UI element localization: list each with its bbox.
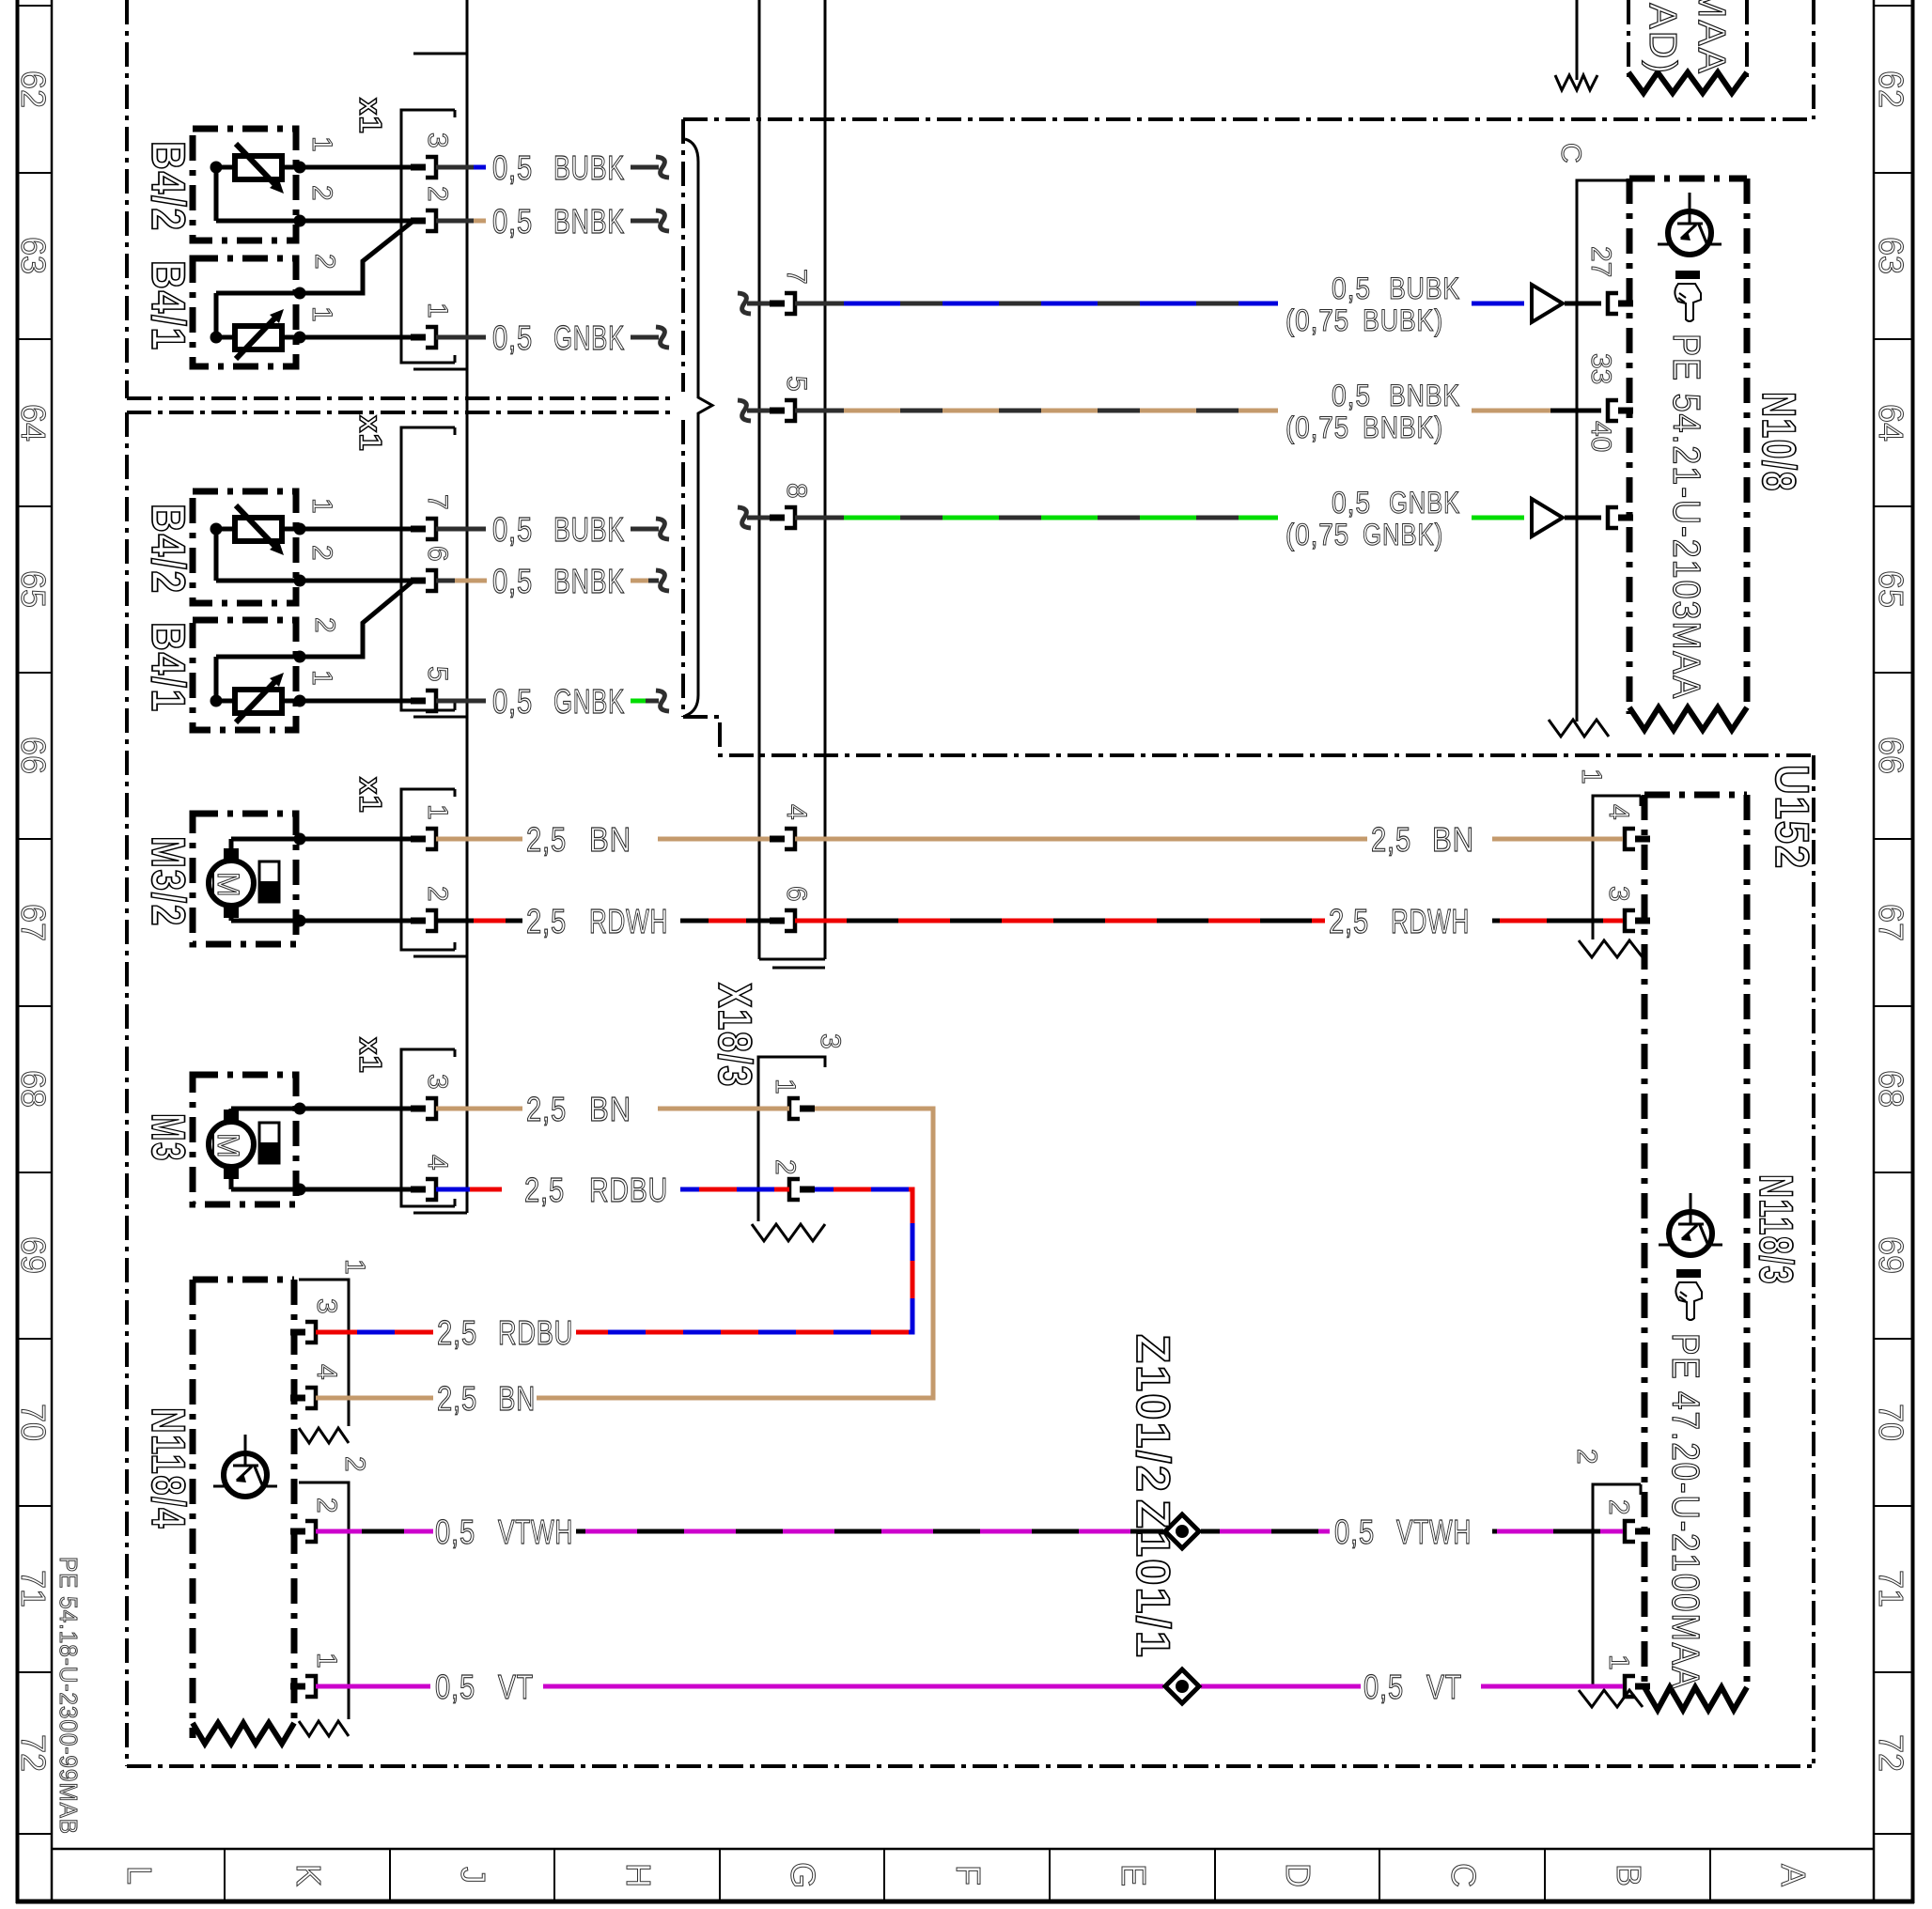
pin 3 x1 g1: [411, 164, 426, 171]
svg-text:4: 4: [311, 1364, 342, 1380]
wire 0,5 VT row: [316, 1684, 430, 1689]
svg-text:(0,75: (0,75: [1285, 518, 1349, 551]
svg-text:(0,75: (0,75: [1285, 303, 1349, 337]
wire 0,5 BNBK to N10/8 pin 33: [795, 409, 825, 413]
U152 connector bracket 1 tear: [1579, 940, 1643, 957]
motor M3 symbol: [209, 1122, 254, 1167]
component box B4/1 (group 2): [193, 620, 296, 730]
svg-text:B4/1: B4/1: [142, 622, 195, 713]
svg-text:66: 66: [14, 737, 53, 774]
svg-text:2,5: 2,5: [437, 1379, 477, 1418]
X18/3 upper rail left: [758, 0, 761, 959]
svg-text:3: 3: [422, 132, 453, 148]
x1 connector bottom comb (M3): [413, 1212, 467, 1215]
svg-text:4: 4: [781, 804, 812, 820]
pin 1 x1 M3/2: [411, 836, 426, 843]
svg-text:RDBU: RDBU: [589, 1171, 668, 1209]
node M3-1: [294, 1103, 306, 1115]
connector bracket 1 N118/4 tear: [299, 1428, 349, 1443]
svg-text:MAD): MAD): [1642, 0, 1685, 75]
svg-text:65: 65: [14, 570, 53, 608]
svg-text:69: 69: [1872, 1236, 1910, 1274]
node B4/2-2 g2: [294, 575, 306, 587]
node B4/2-1 g1: [210, 162, 223, 174]
connector bracket 2 N118/4 tear: [299, 1721, 349, 1736]
svg-text:67: 67: [1872, 904, 1910, 941]
wire M3-2 to pin 4: [231, 1187, 412, 1192]
svg-text:2: 2: [309, 617, 340, 633]
svg-text:2: 2: [770, 1159, 801, 1175]
svg-text:0,5: 0,5: [1332, 486, 1371, 520]
svg-text:2,5: 2,5: [526, 820, 567, 859]
svg-text:M: M: [211, 1133, 245, 1159]
svg-text:64: 64: [1872, 404, 1910, 442]
svg-text:BNBK: BNBK: [553, 202, 625, 241]
svg-text:0,5: 0,5: [492, 318, 533, 357]
wire B4/1-1 g1 to pin 1: [300, 335, 412, 340]
X18/3 upper bottom comb: [759, 958, 825, 961]
arrow GNBK: [1532, 499, 1563, 536]
wire B4/1-2 g1 diagonal to pin 2: [300, 221, 413, 293]
svg-text:(0,75: (0,75: [1285, 411, 1349, 444]
cut component box right edge: [1745, 0, 1749, 77]
svg-text:0,5: 0,5: [435, 1513, 475, 1551]
svg-text:2,5: 2,5: [437, 1313, 477, 1352]
x1 connector bracket (B4 group 2): [401, 427, 455, 710]
wire M3-1 to pin 3: [231, 1107, 412, 1111]
svg-text:BUBK: BUBK: [553, 148, 625, 187]
cut component connector strip top left (to x1 rail): [413, 53, 467, 55]
svg-text:D: D: [1279, 1863, 1317, 1887]
U152 connector bracket 1: [1593, 796, 1641, 939]
splice Z101/2: [1165, 1514, 1199, 1548]
N10/8 connector strip: [1577, 180, 1627, 722]
node M3/2-2: [294, 915, 306, 927]
node B4/1-1 g2: [210, 695, 223, 707]
svg-text:BUBK: BUBK: [553, 510, 625, 549]
node B4/1-2 g2: [294, 651, 306, 663]
wire stub 0,5 BUBK g2: [436, 527, 486, 532]
transistor icon N10/8: [1668, 211, 1711, 255]
svg-text:GNBK: GNBK: [553, 318, 625, 357]
wire B4/2-1 g2 to pin 7: [300, 527, 412, 532]
svg-text:3: 3: [311, 1298, 342, 1314]
thermistor B4/1 group1: [235, 326, 282, 349]
svg-text:2,5: 2,5: [1371, 820, 1411, 859]
assembly box 2 top edge: [127, 411, 673, 414]
wire stub 0,5 BNBK g2: [436, 579, 455, 583]
svg-text:PE 54.21-U-2103MAA: PE 54.21-U-2103MAA: [1665, 334, 1708, 700]
svg-text:N118/4: N118/4: [142, 1407, 195, 1529]
pin 5 x1 g2: [411, 698, 426, 705]
svg-text:69: 69: [14, 1236, 53, 1274]
wire end hook BUBK g1: [656, 157, 669, 178]
svg-text:VT: VT: [498, 1668, 534, 1706]
bundle pin 8 hook: [738, 507, 751, 528]
x1 connector bottom comb (group 2): [413, 716, 467, 719]
thermistor arrow B4/2 group2: [236, 505, 279, 551]
pin 27 N10/8: [1608, 293, 1618, 314]
svg-text:RDWH: RDWH: [589, 902, 668, 940]
svg-text:E: E: [1114, 1864, 1153, 1886]
wire B4/1-1 g2 to pin 5: [300, 699, 412, 704]
pin 4 N118/4: [290, 1395, 305, 1402]
pin 2 x1 M3/2: [411, 918, 426, 924]
pin 1 N118/4: [290, 1684, 305, 1690]
assembly box 1 bottom edge: [127, 396, 673, 400]
N10/8 connector strip tear: [1549, 720, 1609, 737]
wire stub 0,5 GNBK g2: [436, 699, 486, 704]
wire 2,5 RDWH M3/2 row: [436, 919, 522, 923]
component box M3: [193, 1075, 296, 1204]
svg-text:3: 3: [1603, 886, 1634, 902]
svg-text:PE 54.18-U-2300-99MAB: PE 54.18-U-2300-99MAB: [55, 1557, 83, 1835]
left ruler column inner line: [51, 0, 54, 1901]
wire 0,5 VTWH row: [316, 1529, 362, 1534]
svg-text:0,5: 0,5: [492, 682, 533, 721]
component box N10/8: [1627, 178, 1633, 714]
svg-text:N118/3: N118/3: [1750, 1174, 1802, 1285]
assembly box 1 left edge (B4 sensor group 1): [125, 0, 129, 398]
thermistor B4/2 group2: [235, 518, 282, 541]
svg-text:M: M: [211, 872, 245, 898]
svg-text:B: B: [1610, 1864, 1648, 1886]
right ruler separators: [1874, 5, 1912, 7]
pin 1 x1 g1: [411, 334, 426, 341]
assembly bottom edge: [127, 1764, 1814, 1768]
X18/3 lower bracket: [758, 1057, 825, 1221]
hand icon N10/8: [1675, 271, 1700, 279]
cut component box left edge: [1627, 0, 1630, 77]
svg-text:5: 5: [781, 376, 812, 392]
svg-text:0,5: 0,5: [435, 1668, 475, 1706]
svg-text:2: 2: [339, 1456, 370, 1472]
page border bottom outer line: [16, 1900, 1914, 1904]
svg-text:N10/8: N10/8: [1753, 392, 1805, 492]
thermistor arrow B4/1 group1: [236, 314, 279, 359]
svg-text:1: 1: [306, 306, 337, 322]
svg-text:C: C: [1444, 1863, 1483, 1887]
svg-text:4: 4: [1603, 804, 1634, 820]
svg-text:7: 7: [781, 269, 812, 285]
svg-text:GNBK): GNBK): [1363, 518, 1443, 551]
svg-text:1: 1: [1603, 1654, 1634, 1670]
svg-text:B4/2: B4/2: [142, 141, 195, 232]
component box N118/3: [1642, 795, 1648, 1691]
wire stub 0,5 BUBK g1: [436, 165, 474, 170]
svg-text:x1: x1: [353, 415, 388, 452]
x1 connector rail: [466, 0, 469, 1213]
assembly box 2 left edge: [125, 412, 129, 1766]
pin 4 X18/3: [770, 836, 785, 843]
wire M3/2-1 to pin 1: [231, 837, 412, 842]
svg-text:4: 4: [422, 1155, 453, 1171]
svg-text:0,5: 0,5: [1363, 1668, 1404, 1706]
cut component box tear line: [1628, 72, 1747, 93]
svg-text:A: A: [1774, 1864, 1813, 1886]
svg-text:72: 72: [14, 1734, 53, 1772]
svg-text:BNBK): BNBK): [1363, 411, 1443, 444]
wire B4/2-1 g1 to pin 3: [300, 165, 412, 170]
svg-text:K: K: [289, 1864, 328, 1886]
svg-text:BNBK: BNBK: [1389, 379, 1460, 412]
svg-text:H: H: [619, 1863, 658, 1887]
svg-text:G: G: [784, 1862, 822, 1888]
svg-text:70: 70: [14, 1404, 53, 1441]
svg-text:40: 40: [1585, 421, 1616, 452]
pin 33 N10/8: [1608, 400, 1618, 421]
svg-text:2,5: 2,5: [524, 1171, 565, 1209]
svg-text:0,5: 0,5: [492, 148, 533, 187]
pin 7 x1 g2: [411, 526, 426, 533]
wire 0,5 BUBK to N10/8 pin 27: [795, 302, 825, 306]
svg-text:BN: BN: [589, 1090, 631, 1128]
wire end hook BNBK g2: [656, 570, 669, 591]
svg-text:M3/2: M3/2: [142, 836, 195, 927]
svg-text:2: 2: [422, 886, 453, 902]
svg-text:C: C: [1555, 143, 1586, 163]
motor M3/2 symbol: [209, 861, 254, 906]
component box N118/3 tear line: [1644, 1687, 1747, 1710]
svg-text:BN: BN: [589, 820, 631, 859]
svg-text:BUBK: BUBK: [1389, 272, 1460, 305]
page border right outer line: [1911, 0, 1915, 1903]
x1 connector bottom comb (group 1): [413, 368, 467, 371]
svg-text:X18/3: X18/3: [709, 983, 761, 1088]
svg-text:2: 2: [422, 186, 453, 202]
svg-text:2: 2: [1571, 1449, 1602, 1465]
svg-text:71: 71: [1872, 1570, 1910, 1607]
svg-text:Z101/1: Z101/1: [1127, 1499, 1179, 1659]
svg-text:0,5: 0,5: [492, 562, 533, 600]
component box B4/1 (group 1): [193, 258, 296, 366]
svg-text:1: 1: [306, 498, 337, 514]
bottom letter-row top line: [52, 1848, 1875, 1851]
cut component connector tear: [1555, 75, 1597, 90]
bundle pin 7: [770, 301, 785, 307]
left ruler separators: [18, 5, 53, 7]
svg-text:M3: M3: [142, 1113, 195, 1162]
pin 2 X18/3 lower: [789, 1179, 800, 1200]
wire-bundle box bottom edge step: [683, 717, 1814, 755]
svg-text:33: 33: [1585, 353, 1616, 384]
svg-text:67: 67: [14, 904, 53, 941]
svg-text:J: J: [454, 1867, 492, 1884]
svg-text:x1: x1: [353, 1037, 388, 1074]
wire 2,5 RDBU M3 row to X18/3 pin 2: [436, 1187, 470, 1192]
wire stub 0,5 GNBK g1: [436, 335, 486, 340]
svg-text:GNBK: GNBK: [1389, 486, 1460, 520]
svg-text:7: 7: [422, 494, 453, 510]
wire end hook BUBK g2: [656, 519, 669, 539]
wire 2,5 BN elbow: [537, 1109, 933, 1398]
svg-text:66: 66: [1872, 737, 1910, 774]
motor M3/2 pump rectangle: [259, 861, 279, 902]
wire stub 0,5 BNBK g1: [436, 219, 474, 224]
wire end hook BNBK g1: [656, 210, 669, 231]
wire B4/2-2 g1 to pin 2: [300, 219, 412, 224]
cut component N10/7 connector strip: [1576, 0, 1579, 80]
svg-text:BN: BN: [1432, 820, 1474, 859]
svg-text:GNBK: GNBK: [553, 682, 625, 721]
svg-text:64: 64: [14, 404, 53, 442]
wire M3/2-2 to pin 2: [231, 919, 412, 923]
wire 2,5 RDBU elbow: [576, 1189, 912, 1332]
svg-text:x1: x1: [353, 98, 388, 134]
svg-text:62: 62: [1872, 70, 1910, 108]
connector bracket 1 N118/4: [299, 1280, 349, 1426]
svg-text:3: 3: [815, 1033, 846, 1049]
bundle pin 8: [770, 515, 785, 521]
thermistor B4/1 group2: [235, 690, 282, 713]
top partial box right edge: [1812, 0, 1815, 119]
svg-text:2: 2: [306, 185, 337, 201]
transistor icon N118/4: [224, 1453, 267, 1497]
svg-text:VT: VT: [1426, 1668, 1462, 1706]
wire end hook GNBK g2: [656, 691, 669, 711]
svg-text:1: 1: [770, 1079, 801, 1094]
svg-text:F: F: [949, 1865, 988, 1886]
U152 pin 2: [1625, 1521, 1635, 1542]
arrow BUBK: [1532, 285, 1563, 322]
node M3-2: [294, 1184, 306, 1196]
wire 2,5 BN M3/2 row: [436, 837, 522, 842]
svg-text:2,5: 2,5: [1329, 902, 1369, 940]
svg-text:RDBU: RDBU: [498, 1313, 573, 1352]
svg-text:0,5: 0,5: [492, 510, 533, 549]
svg-text:MAA: MAA: [1690, 0, 1734, 75]
U152 pin 3: [1625, 910, 1635, 931]
wire B4/2-2 g2 to pin 6: [300, 579, 412, 583]
right ruler column inner line: [1873, 0, 1876, 1901]
U152 connector bracket 2: [1593, 1484, 1641, 1686]
wire-bundle box top edge: [683, 117, 1814, 121]
svg-text:71: 71: [14, 1570, 53, 1607]
component box B4/2 (group 2): [193, 491, 296, 603]
hand icon N118/3: [1676, 1269, 1701, 1278]
pin 6 X18/3: [770, 918, 785, 924]
svg-text:1: 1: [306, 136, 337, 152]
x1 connector bottom comb (M3/2): [413, 955, 467, 958]
component box M3/2: [193, 814, 296, 944]
svg-text:68: 68: [14, 1070, 53, 1108]
svg-text:68: 68: [1872, 1070, 1910, 1108]
pin 3 N118/4: [290, 1329, 305, 1336]
harness brace: [685, 139, 712, 716]
motor M3 pump rectangle: [259, 1123, 279, 1163]
svg-text:RDWH: RDWH: [1391, 902, 1470, 940]
svg-text:B4/2: B4/2: [142, 504, 195, 595]
thermistor arrow B4/1 group2: [236, 677, 279, 722]
svg-text:1: 1: [1576, 768, 1607, 784]
svg-text:72: 72: [1872, 1734, 1910, 1772]
splice Z101/1: [1165, 1669, 1199, 1703]
node M3/2-1: [294, 833, 306, 846]
svg-text:PE 47.20-U-2100MAA: PE 47.20-U-2100MAA: [1664, 1333, 1707, 1690]
svg-text:U152: U152: [1766, 765, 1818, 870]
x1 connector bracket (M3): [401, 1049, 455, 1206]
svg-text:27: 27: [1585, 246, 1616, 277]
bottom letter cells: [224, 1849, 226, 1901]
svg-text:1: 1: [422, 804, 453, 820]
svg-text:0,5: 0,5: [1334, 1513, 1375, 1551]
wire end hook GNBK g1: [656, 327, 669, 348]
svg-text:8: 8: [781, 483, 812, 499]
transistor icon N118/3: [1669, 1212, 1712, 1255]
svg-text:BUBK): BUBK): [1363, 303, 1443, 337]
node B4/1-2 g1: [294, 287, 306, 300]
svg-text:2: 2: [309, 254, 340, 270]
svg-text:VTWH: VTWH: [498, 1513, 573, 1551]
pin 2 N118/4: [290, 1529, 305, 1535]
svg-text:6: 6: [422, 546, 453, 562]
pin 3 x1 M3: [411, 1106, 426, 1112]
svg-text:BN: BN: [498, 1379, 536, 1418]
svg-text:B4/1: B4/1: [142, 260, 195, 351]
pin 40 N10/8: [1608, 507, 1618, 528]
U152 pin 1: [1625, 1676, 1635, 1697]
svg-text:2: 2: [1603, 1499, 1634, 1515]
svg-text:0,5: 0,5: [492, 202, 533, 241]
wire-bundle box left edge upper part: [681, 119, 685, 392]
U152 assembly box right edge: [1812, 755, 1815, 1766]
svg-text:0,5: 0,5: [1332, 379, 1371, 412]
svg-text:1: 1: [311, 1653, 342, 1668]
node B4/2-2 g1: [294, 215, 306, 227]
x1 connector bracket (M3/2): [401, 789, 455, 950]
svg-text:62: 62: [14, 70, 53, 108]
svg-text:BNBK: BNBK: [553, 562, 625, 600]
bundle pin 7 hook: [738, 293, 751, 314]
svg-text:1: 1: [422, 303, 453, 318]
svg-text:VTWH: VTWH: [1396, 1513, 1472, 1551]
svg-text:70: 70: [1872, 1404, 1910, 1441]
svg-text:63: 63: [1872, 237, 1910, 274]
pin 4 x1 M3: [411, 1187, 426, 1193]
component box N118/4: [190, 1280, 196, 1738]
thermistor arrow B4/2 group1: [236, 144, 279, 189]
connector bracket 2 N118/4: [299, 1482, 349, 1719]
X18/3 lower bracket tear: [752, 1224, 825, 1241]
component box B4/2 (group 1): [193, 129, 296, 241]
svg-text:5: 5: [422, 666, 453, 682]
component box N10/8 tear line: [1629, 707, 1747, 730]
wire-bundle box left edge lower part: [681, 420, 685, 717]
svg-text:2: 2: [306, 545, 337, 561]
pin 6 x1 g2: [411, 578, 426, 584]
X18/3 upper rail right: [824, 0, 827, 959]
svg-text:L: L: [120, 1866, 159, 1885]
svg-text:2: 2: [311, 1498, 342, 1513]
bundle pin 5 hook: [738, 400, 751, 421]
wire 2,5 BN M3 row to X18/3 pin 1: [436, 1107, 522, 1111]
component box N118/4 tear line: [193, 1723, 294, 1744]
svg-text:3: 3: [422, 1074, 453, 1090]
bundle pin 5: [770, 408, 785, 414]
U152 pin 4: [1625, 829, 1635, 849]
pin 1 X18/3 lower: [789, 1098, 800, 1119]
svg-text:x1: x1: [353, 777, 388, 814]
svg-text:2,5: 2,5: [526, 1090, 567, 1128]
wire B4/1-2 g2 diagonal to pin 6: [300, 581, 413, 657]
pin 2 x1 g1: [411, 218, 426, 225]
svg-text:1: 1: [306, 670, 337, 686]
page border left outer line: [16, 0, 20, 1903]
wire 0,5 GNBK to N10/8 pin 40: [795, 516, 825, 520]
svg-text:1: 1: [339, 1259, 370, 1275]
svg-text:Z101/2: Z101/2: [1127, 1334, 1179, 1494]
node B4/1-1 g1: [210, 332, 223, 344]
